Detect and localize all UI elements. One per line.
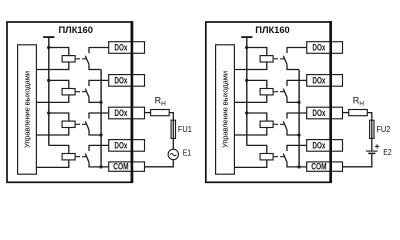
wire: contact K1 to terminal DO1 (block 2) bbox=[287, 47, 307, 49]
wire: contact K3 to COM bus (block 2) bbox=[287, 130, 299, 135]
wire: contact K3 to terminal DO3 (block 2) bbox=[287, 112, 307, 114]
junction node on supply bus, row 1 (block 2) bbox=[245, 46, 248, 49]
fuse FU2 through-wire bbox=[371, 120, 373, 138]
battery E2 negative plate (short thick) bbox=[368, 152, 375, 154]
wire: relay coil K4 to control box output (block 2) bbox=[234, 160, 266, 168]
svg-text:DOx: DOx bbox=[114, 43, 127, 53]
mechanical link coil K3 to contact (dashed) (block 2) bbox=[274, 123, 284, 125]
mechanical link coil K4 to contact (dashed) (block 1) bbox=[76, 156, 86, 158]
output control box (block 2) bbox=[216, 45, 235, 174]
relay coil K1 (block 2) bbox=[260, 56, 273, 62]
mechanical link coil K4 to contact (dashed) (block 2) bbox=[274, 156, 284, 158]
COM bus vertical (block 1) bbox=[100, 70, 102, 167]
load resistor RH (block 2) bbox=[349, 110, 368, 116]
PLC block 2 outline bbox=[206, 22, 331, 182]
svg-text:E1: E1 bbox=[183, 148, 192, 158]
fuse FU2 body bbox=[370, 120, 374, 138]
wire: supply bus to relay coil K1 (block 1) bbox=[49, 48, 69, 56]
wire: contact K3 to COM bus (block 1) bbox=[89, 130, 101, 135]
terminal rail overlay (block 2) bbox=[329, 21, 332, 183]
svg-text:DOx: DOx bbox=[312, 43, 325, 53]
wire: contact K2 to terminal DO2 (block 1) bbox=[89, 79, 109, 81]
relay coil K4 (block 2) bbox=[260, 154, 273, 160]
PLC block 2 right terminal rail (thick border) bbox=[329, 21, 332, 183]
wire: fuse FU1 to source E1 bbox=[172, 138, 174, 149]
wire: relay coil K2 to control box output (block 1) bbox=[36, 95, 68, 103]
svg-text:Управление выходами: Управление выходами bbox=[22, 71, 31, 148]
wire: contact K1 to terminal DO1 (block 1) bbox=[89, 47, 109, 49]
svg-text:DOx: DOx bbox=[312, 76, 325, 86]
internal supply rail terminal bar (block 1) bbox=[43, 36, 54, 38]
wire: supply bus to relay coil K2 (block 2) bbox=[247, 80, 267, 88]
mechanical link coil K2 to contact (dashed) (block 2) bbox=[274, 91, 284, 93]
junction node on COM bus, row 2 (block 1) bbox=[99, 101, 102, 104]
wire: supply bus to relay coil K3 (block 1) bbox=[49, 113, 69, 121]
relay contact K3 blade (block 2) bbox=[283, 121, 287, 130]
svg-text:DOx: DOx bbox=[312, 108, 325, 118]
PLC block 1 outline bbox=[7, 22, 132, 182]
svg-text:Управление выходами: Управление выходами bbox=[220, 71, 229, 148]
relay contact K2 fixed lead (block 1) bbox=[88, 80, 90, 86]
svg-text:FU2: FU2 bbox=[376, 124, 390, 134]
junction node on supply bus, row 1 (block 1) bbox=[47, 46, 50, 49]
fuse FU1 body bbox=[171, 120, 175, 138]
wire: contact K2 to terminal DO2 (block 2) bbox=[287, 79, 307, 81]
svg-text:DOx: DOx bbox=[114, 141, 127, 151]
svg-text:E2: E2 bbox=[383, 147, 392, 157]
wire: contact K4 to terminal DO4 (block 2) bbox=[287, 144, 307, 146]
PLC block 1 right terminal rail (thick border) bbox=[131, 21, 134, 183]
terminal box DO4 (block 2) bbox=[307, 140, 343, 152]
wire: relay coil K3 to control box output (block 2) bbox=[234, 128, 266, 136]
terminal box DO1 (block 2) bbox=[307, 42, 343, 54]
relay contact K1 fixed lead (block 1) bbox=[88, 47, 90, 53]
wire: supply bus to relay coil K4 (block 1) bbox=[49, 145, 69, 153]
relay coil K1 (block 1) bbox=[62, 56, 75, 62]
junction node on supply bus, row 2 (block 1) bbox=[47, 79, 50, 82]
wire: supply bus to relay coil K3 (block 2) bbox=[247, 113, 267, 121]
wire: contact K4 to COM terminal (block 2) bbox=[287, 162, 307, 167]
terminal box DO3 (block 2) bbox=[307, 107, 343, 119]
wire: contact K4 to COM terminal (block 1) bbox=[89, 162, 109, 167]
terminal box DO4 (block 1) bbox=[109, 140, 145, 152]
relay coil K4 (block 1) bbox=[62, 154, 75, 160]
wire: supply bus to relay coil K1 (block 2) bbox=[247, 48, 267, 56]
wire: resistor RH to fuse FU1 bbox=[169, 113, 173, 121]
COM bus vertical (block 2) bbox=[298, 70, 300, 167]
relay contact K1 blade (block 2) bbox=[283, 56, 287, 65]
AC source E1 (circle) bbox=[168, 149, 178, 159]
wire: relay coil K4 to control box output (block 1) bbox=[36, 160, 68, 168]
terminal box COM (block 2) bbox=[307, 162, 343, 171]
junction node on supply bus, row 3 (block 2) bbox=[245, 111, 248, 114]
battery E2 positive plate (long) bbox=[366, 150, 378, 152]
terminal box COM (block 1) bbox=[109, 162, 145, 171]
junction node on COM bus, row 2 (block 2) bbox=[297, 101, 300, 104]
relay contact K3 fixed lead (block 1) bbox=[88, 113, 90, 119]
terminal box DO2 (block 1) bbox=[109, 75, 145, 87]
relay contact K2 blade (block 1) bbox=[85, 89, 89, 98]
wire: relay coil K1 to control box output (block 1) bbox=[36, 62, 68, 70]
wire: battery E2 to COM terminal bbox=[343, 153, 372, 166]
load resistor RH (block 1) bbox=[151, 110, 170, 116]
junction node on COM bus, row 3 (block 2) bbox=[297, 133, 300, 136]
relay coil K3 (block 2) bbox=[260, 121, 273, 127]
wire: relay coil K2 to control box output (block 2) bbox=[234, 95, 266, 103]
terminal box DO2 (block 2) bbox=[307, 75, 343, 87]
wire: contact K2 to COM bus (block 1) bbox=[89, 97, 101, 102]
wire: fuse FU2 to battery E2 bbox=[371, 138, 373, 151]
svg-text:DOx: DOx bbox=[114, 108, 127, 118]
relay contact K3 fixed lead (block 2) bbox=[286, 113, 288, 119]
relay contact K4 fixed lead (block 1) bbox=[88, 145, 90, 151]
relay contact K3 blade (block 1) bbox=[85, 121, 89, 130]
relay coil K2 (block 2) bbox=[260, 89, 273, 95]
fuse FU1 through-wire bbox=[172, 120, 174, 138]
relay contact K2 fixed lead (block 2) bbox=[286, 80, 288, 86]
internal supply bus (block 2) bbox=[246, 37, 248, 145]
relay contact K2 blade (block 2) bbox=[283, 89, 287, 98]
relay coil K3 (block 1) bbox=[62, 121, 75, 127]
junction node COM bus / COM terminal (block 2) bbox=[297, 165, 300, 168]
wire: supply bus to relay coil K2 (block 1) bbox=[49, 80, 69, 88]
wire: contact K2 to COM bus (block 2) bbox=[287, 97, 299, 102]
wire: contact K1 to COM bus (block 1) bbox=[89, 64, 101, 69]
terminal box DO3 (block 1) bbox=[109, 107, 145, 119]
relay contact K4 blade (block 1) bbox=[85, 154, 89, 163]
svg-text:COM: COM bbox=[311, 162, 326, 172]
svg-text:COM: COM bbox=[113, 162, 128, 172]
svg-text:FU1: FU1 bbox=[178, 124, 192, 134]
wire: relay coil K3 to control box output (block 1) bbox=[36, 128, 68, 136]
relay contact K1 blade (block 1) bbox=[85, 56, 89, 65]
wire: terminal DO3 to load resistor (block 2) bbox=[343, 112, 349, 114]
wire: resistor RH to fuse FU2 bbox=[367, 113, 372, 121]
svg-text:DOx: DOx bbox=[312, 141, 325, 151]
wire: contact K4 to terminal DO4 (block 1) bbox=[89, 144, 109, 146]
svg-text:DOx: DOx bbox=[114, 76, 127, 86]
wire: contact K1 to COM bus (block 2) bbox=[287, 64, 299, 69]
wire: terminal DO3 to load resistor (block 1) bbox=[145, 112, 151, 114]
wire: source E1 to COM terminal bbox=[145, 160, 174, 167]
internal supply bus (block 1) bbox=[48, 37, 50, 145]
relay contact K4 blade (block 2) bbox=[283, 154, 287, 163]
mechanical link coil K3 to contact (dashed) (block 1) bbox=[76, 123, 86, 125]
wire: contact K3 to terminal DO3 (block 1) bbox=[89, 112, 109, 114]
junction node COM bus / COM terminal (block 1) bbox=[99, 165, 102, 168]
svg-text:ПЛК160: ПЛК160 bbox=[58, 24, 93, 35]
junction node on supply bus, row 3 (block 1) bbox=[47, 111, 50, 114]
internal supply rail terminal bar (block 2) bbox=[241, 36, 252, 38]
output control box (block 1) bbox=[18, 45, 37, 174]
AC sine symbol inside E1 bbox=[170, 154, 176, 156]
junction node on supply bus, row 2 (block 2) bbox=[245, 79, 248, 82]
polarity plus sign at E2 bbox=[375, 144, 379, 148]
junction node on COM bus, row 3 (block 1) bbox=[99, 133, 102, 136]
terminal box DO1 (block 1) bbox=[109, 42, 145, 54]
mechanical link coil K1 to contact (dashed) (block 1) bbox=[76, 58, 86, 60]
svg-text:ПЛК160: ПЛК160 bbox=[255, 24, 290, 35]
relay contact K1 fixed lead (block 2) bbox=[286, 47, 288, 53]
terminal rail overlay (block 1) bbox=[131, 21, 134, 183]
wire: supply bus to relay coil K4 (block 2) bbox=[247, 145, 267, 153]
mechanical link coil K2 to contact (dashed) (block 1) bbox=[76, 91, 86, 93]
relay coil K2 (block 1) bbox=[62, 89, 75, 95]
mechanical link coil K1 to contact (dashed) (block 2) bbox=[274, 58, 284, 60]
wire: relay coil K1 to control box output (block 2) bbox=[234, 62, 266, 70]
relay contact K4 fixed lead (block 2) bbox=[286, 145, 288, 151]
